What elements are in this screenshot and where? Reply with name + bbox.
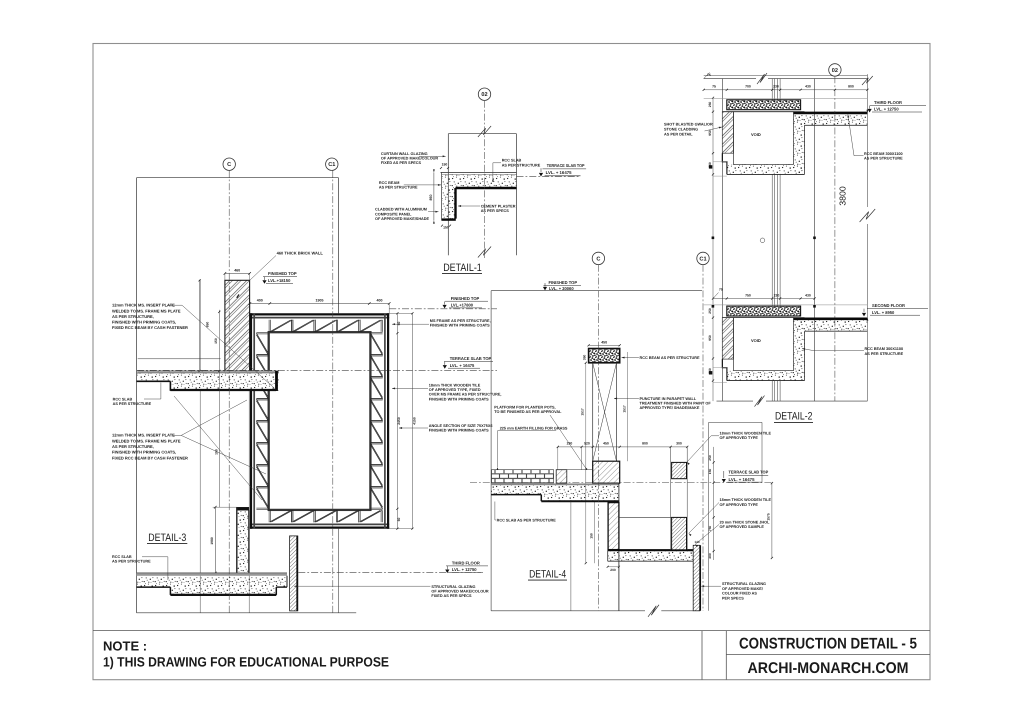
svg-text:AS PER SPECS: AS PER SPECS (481, 209, 510, 213)
svg-text:RCC SLAB: RCC SLAB (113, 397, 133, 401)
svg-text:150: 150 (214, 449, 218, 455)
svg-text:COMPOSITE PANEL: COMPOSITE PANEL (375, 212, 412, 216)
svg-text:AS PER STRUCTURE: AS PER STRUCTURE (865, 352, 904, 356)
svg-text:WELDED TO MS. FRAME MS PLATE: WELDED TO MS. FRAME MS PLATE (112, 308, 181, 313)
svg-text:FINISHED WITH PRIMING COATS: FINISHED WITH PRIMING COATS (429, 397, 489, 401)
svg-text:AS PER DETAIL: AS PER DETAIL (664, 133, 693, 137)
svg-text:FIXED AS PER SPECS: FIXED AS PER SPECS (431, 594, 472, 598)
svg-text:450: 450 (603, 442, 609, 446)
svg-text:PER SPECS: PER SPECS (722, 596, 744, 600)
svg-text:TERRACE SLAB TOP: TERRACE SLAB TOP (547, 163, 585, 168)
svg-text:800: 800 (848, 85, 854, 89)
svg-text:OF APPROVED MAKE/SHADE: OF APPROVED MAKE/SHADE (375, 217, 430, 221)
svg-text:OF APPROVED TYPE, FIXED: OF APPROVED TYPE, FIXED (429, 388, 481, 392)
svg-text:230: 230 (567, 442, 573, 446)
svg-text:FIXED RCC BEAM BY CASH FASTENE: FIXED RCC BEAM BY CASH FASTENER (112, 455, 188, 460)
svg-text:FINISHED WITH PRIMING COATS,: FINISHED WITH PRIMING COATS, (112, 450, 176, 455)
svg-text:750: 750 (745, 293, 751, 297)
svg-text:AS PER STRUCTURE,: AS PER STRUCTURE, (112, 314, 154, 319)
svg-text:RCC SLAB: RCC SLAB (112, 555, 132, 559)
svg-text:STRUCTURAL GLAZING: STRUCTURAL GLAZING (722, 582, 766, 586)
svg-text:12mm THICK MS. INSERT PLATE: 12mm THICK MS. INSERT PLATE (112, 433, 175, 438)
svg-text:LVL. + 16475: LVL. + 16475 (450, 363, 475, 368)
svg-text:RCC BEAM 300X1100: RCC BEAM 300X1100 (864, 152, 903, 156)
svg-text:300: 300 (676, 442, 682, 446)
svg-text:LVL. + 16475: LVL. + 16475 (546, 170, 573, 175)
svg-text:800: 800 (642, 442, 648, 446)
svg-text:1517: 1517 (623, 405, 627, 413)
svg-text:APPROVED TYPE/ SHADE/MAKE: APPROVED TYPE/ SHADE/MAKE (640, 406, 700, 410)
svg-text:DETAIL-2: DETAIL-2 (775, 411, 813, 423)
svg-text:THIRD FLOOR: THIRD FLOOR (452, 561, 480, 566)
svg-text:250: 250 (708, 102, 712, 108)
svg-text:18mm THICK WOODEN TILE: 18mm THICK WOODEN TILE (720, 498, 772, 502)
svg-text:12mm THICK MS. INSERT PLATE: 12mm THICK MS. INSERT PLATE (112, 303, 175, 308)
svg-text:C: C (227, 162, 231, 168)
svg-text:140: 140 (694, 540, 699, 544)
svg-text:AS PER STRUCTURE: AS PER STRUCTURE (112, 560, 151, 564)
svg-text:60: 60 (397, 322, 401, 326)
svg-text:460: 460 (234, 268, 240, 272)
svg-text:OF APPROVED TYPE: OF APPROVED TYPE (720, 436, 759, 440)
svg-text:FINISHED TOP: FINISHED TOP (451, 296, 480, 301)
svg-text:850: 850 (429, 195, 433, 201)
svg-text:LVL.+18150: LVL.+18150 (268, 278, 291, 283)
svg-text:150: 150 (443, 226, 449, 230)
svg-text:C1: C1 (328, 162, 335, 168)
svg-text:RCC BEAM AS PER STRUCTURE: RCC BEAM AS PER STRUCTURE (640, 356, 700, 360)
svg-text:230: 230 (773, 85, 779, 89)
svg-text:75: 75 (707, 73, 711, 77)
svg-text:CEMENT PLASTER: CEMENT PLASTER (481, 204, 516, 208)
svg-text:RCC SLAB AS PER STRUCTURE: RCC SLAB AS PER STRUCTURE (497, 519, 557, 523)
svg-text:FINISHED WITH PRIMING COATS: FINISHED WITH PRIMING COATS (429, 429, 489, 433)
svg-text:C: C (596, 256, 600, 262)
svg-text:RCC BEAM 300X1100: RCC BEAM 300X1100 (865, 347, 904, 351)
svg-text:AS PER STRUCTURE: AS PER STRUCTURE (113, 402, 152, 406)
svg-text:DETAIL-4: DETAIL-4 (529, 568, 566, 580)
svg-text:AS PER STRUCTURE: AS PER STRUCTURE (864, 157, 903, 161)
svg-text:OF APPROVED MAKE/COLOUR: OF APPROVED MAKE/COLOUR (381, 157, 438, 161)
svg-text:OF APPROVED SAMPLE: OF APPROVED SAMPLE (720, 525, 765, 529)
svg-text:250: 250 (708, 308, 712, 314)
svg-text:PUNCTURE IN PARAPET WALL: PUNCTURE IN PARAPET WALL (640, 397, 697, 401)
svg-text:C1: C1 (699, 256, 706, 262)
svg-text:460 THICK BRICK WALL: 460 THICK BRICK WALL (277, 251, 324, 256)
svg-text:DETAIL-3: DETAIL-3 (148, 532, 186, 544)
svg-text:2450: 2450 (397, 417, 401, 425)
svg-text:950: 950 (708, 130, 712, 136)
svg-text:COLOUR FIXED AS: COLOUR FIXED AS (722, 592, 757, 596)
svg-text:LVL. + 8950: LVL. + 8950 (872, 310, 895, 315)
svg-text:FINISHED WITH PRIMING COATS: FINISHED WITH PRIMING COATS (430, 324, 490, 328)
svg-text:TREATMENT FINISHED WITH PAINT: TREATMENT FINISHED WITH PAINT OF (640, 402, 712, 406)
svg-text:FINISHED WITH PRIMING COATS,: FINISHED WITH PRIMING COATS, (112, 320, 176, 325)
svg-text:430: 430 (805, 293, 811, 297)
svg-text:LVL. + 12750: LVL. + 12750 (452, 567, 477, 572)
svg-text:LVL. + 12750: LVL. + 12750 (874, 107, 899, 112)
svg-text:02: 02 (832, 68, 838, 74)
svg-text:FINISHED TOP: FINISHED TOP (268, 271, 297, 276)
svg-text:AS PER STRUCTURE: AS PER STRUCTURE (502, 163, 541, 167)
svg-text:SHOT BLASTED GWALIOR: SHOT BLASTED GWALIOR (664, 123, 713, 127)
svg-text:18mm THICK WOODEN TILE: 18mm THICK WOODEN TILE (720, 431, 772, 435)
svg-text:225 mm EARTH FILLING FOR GRASS: 225 mm EARTH FILLING FOR GRASS (500, 426, 568, 430)
svg-text:RCC SLAB: RCC SLAB (502, 159, 522, 163)
svg-text:20 mm THICK STONE JHOL: 20 mm THICK STONE JHOL (720, 520, 771, 524)
svg-text:430: 430 (805, 85, 811, 89)
svg-text:STONE CLADDING: STONE CLADDING (664, 128, 698, 132)
svg-text:VOID: VOID (751, 338, 761, 343)
svg-text:150: 150 (214, 338, 218, 344)
svg-text:950: 950 (708, 335, 712, 341)
svg-text:350: 350 (582, 355, 586, 361)
svg-text:LVL.+17800: LVL.+17800 (451, 303, 474, 308)
svg-text:3800: 3800 (838, 186, 848, 206)
svg-text:TO BE FINISHED AS PER APPROVAL: TO BE FINISHED AS PER APPROVAL (494, 410, 562, 414)
svg-text:SECOND FLOOR: SECOND FLOOR (872, 303, 905, 308)
svg-text:450: 450 (601, 340, 607, 344)
svg-text:WELDED TO MS. FRAME MS PLATE: WELDED TO MS. FRAME MS PLATE (112, 438, 181, 443)
svg-text:150: 150 (442, 163, 448, 167)
svg-text:OF APPROVED MAKE/: OF APPROVED MAKE/ (722, 587, 764, 591)
svg-text:230: 230 (774, 293, 780, 297)
svg-text:1905: 1905 (316, 298, 324, 302)
svg-text:1980: 1980 (210, 537, 214, 545)
svg-text:STRUCTURAL GLAZING: STRUCTURAL GLAZING (431, 585, 475, 589)
svg-text:520: 520 (584, 442, 590, 446)
svg-text:75: 75 (712, 85, 716, 89)
svg-text:PLATFORM FOR PLANTER POTS,: PLATFORM FOR PLANTER POTS, (494, 406, 555, 410)
svg-text:MS FRAME AS PER STRUCTURE,: MS FRAME AS PER STRUCTURE, (430, 319, 491, 323)
svg-text:OF APPROVED MAKE/COLOUR: OF APPROVED MAKE/COLOUR (431, 590, 488, 594)
svg-text:CONSTRUCTION DETAIL - 5: CONSTRUCTION DETAIL - 5 (739, 635, 917, 652)
svg-text:TERRACE SLAB TOP: TERRACE SLAB TOP (450, 356, 492, 361)
svg-text:VOID: VOID (751, 132, 761, 137)
svg-text:THIRD FLOOR: THIRD FLOOR (874, 100, 902, 105)
svg-text:AS PER STRUCTURE,: AS PER STRUCTURE, (112, 444, 154, 449)
svg-text:ARCHI-MONARCH.COM: ARCHI-MONARCH.COM (748, 660, 909, 677)
svg-text:FINISHED TOP: FINISHED TOP (549, 280, 578, 285)
svg-text:NOTE :: NOTE : (103, 639, 147, 654)
svg-text:OF APPROVED TYPE: OF APPROVED TYPE (720, 503, 759, 507)
svg-text:LVL. + 16475: LVL. + 16475 (729, 477, 756, 482)
svg-text:ANGLE SECTION OF SIZE 75X75X6: ANGLE SECTION OF SIZE 75X75X6 (429, 424, 493, 428)
svg-text:1) THIS DRAWING FOR EDUCATIONA: 1) THIS DRAWING FOR EDUCATIONAL PURPOSE (103, 655, 389, 670)
svg-text:650: 650 (205, 322, 209, 328)
svg-text:200: 200 (610, 568, 616, 572)
svg-text:OVER MS FRAME AS PER STRUCTURE: OVER MS FRAME AS PER STRUCTURE, (429, 393, 502, 397)
svg-text:700: 700 (745, 85, 751, 89)
svg-text:CLADDED WITH ALUMINIUM: CLADDED WITH ALUMINIUM (375, 208, 427, 212)
svg-text:400: 400 (257, 298, 263, 302)
svg-text:1517: 1517 (581, 408, 585, 416)
svg-text:400: 400 (377, 298, 383, 302)
svg-text:60: 60 (397, 518, 401, 522)
svg-text:DETAIL-1: DETAIL-1 (443, 262, 482, 274)
svg-text:FIXED AS PER SPECS: FIXED AS PER SPECS (381, 161, 422, 165)
svg-text:150: 150 (590, 533, 594, 539)
svg-text:18mm THICK WOODEN TILE: 18mm THICK WOODEN TILE (429, 383, 481, 387)
svg-text:75: 75 (719, 288, 723, 292)
svg-text:AS PER STRUCTURE: AS PER STRUCTURE (379, 186, 418, 190)
svg-text:4150: 4150 (412, 417, 416, 425)
svg-text:CURTAIN WALL GLAZING: CURTAIN WALL GLAZING (381, 152, 428, 156)
svg-text:TERRACE SLAB TOP: TERRACE SLAB TOP (729, 469, 769, 474)
svg-text:LVL. + 20060: LVL. + 20060 (549, 286, 574, 291)
svg-text:02: 02 (481, 92, 487, 98)
svg-text:RCC BEAM: RCC BEAM (379, 181, 399, 185)
svg-text:FIXED RCC BEAM BY CASH FASTENE: FIXED RCC BEAM BY CASH FASTENER (112, 325, 188, 330)
